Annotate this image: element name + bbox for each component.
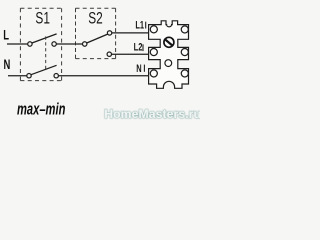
wire L1	[112, 32, 149, 34]
mounting hole (plain)	[165, 60, 172, 67]
wire L2	[112, 53, 149, 55]
svg-text:N: N	[4, 57, 11, 72]
terminal tick L2	[142, 44, 144, 51]
svg-text:N: N	[136, 61, 142, 74]
svg-text:S2: S2	[88, 10, 103, 28]
S1 pole2 contact a	[27, 74, 31, 78]
wire N to terminal block	[58, 75, 148, 77]
S1 pole2 contact b	[54, 74, 58, 78]
terminal hole row2 left	[150, 49, 157, 56]
terminal hole row1 left	[150, 26, 157, 33]
S1 mechanical link (dashed)	[45, 36, 47, 69]
terminal block XT outline	[149, 21, 189, 89]
S1 pole1 contact b	[52, 42, 56, 46]
wire L input	[7, 43, 28, 45]
S1 pole2 lever	[31, 65, 57, 74]
svg-text:max–min: max–min	[17, 100, 66, 119]
S1 pole1 lever	[32, 34, 57, 43]
terminal tick L1	[145, 22, 147, 29]
switch S1 dashed enclosure	[20, 8, 61, 80]
svg-text:L: L	[3, 28, 9, 43]
S2 throw contact 2	[107, 52, 111, 56]
S2 common contact	[83, 42, 87, 46]
S2 lever (closed to top throw)	[87, 34, 108, 43]
terminal hole row3 right	[181, 70, 188, 77]
svg-text:L1: L1	[135, 18, 144, 31]
terminal tick N	[143, 65, 145, 72]
S1 pole1 contact a	[28, 42, 32, 46]
switch S2 dashed enclosure	[76, 8, 116, 58]
wire N input	[8, 75, 27, 77]
terminal hole row3 left	[150, 70, 157, 77]
mounting screw with slot	[164, 37, 174, 47]
svg-text:HomeMasters.ru: HomeMasters.ru	[104, 107, 200, 121]
terminal hole row2 right	[181, 49, 188, 56]
S2 throw contact 1	[107, 31, 111, 35]
terminal hole row1 right	[181, 26, 188, 33]
svg-text:L2: L2	[134, 40, 143, 53]
svg-text:S1: S1	[35, 10, 50, 28]
wire S1 to S2	[56, 43, 82, 45]
